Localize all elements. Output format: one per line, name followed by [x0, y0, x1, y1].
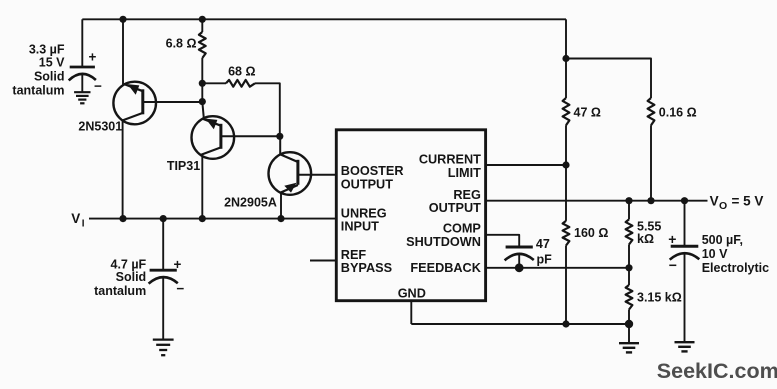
ground: 4.7uF ground: [153, 340, 174, 356]
wire: top branch to 0.16-ohm: [566, 59, 651, 99]
wire: rail to 3.3uF capacitor: [81, 19, 83, 67]
wire: Q1 collector down to input rail: [122, 120, 124, 218]
pin label: REF: [341, 248, 367, 262]
node: 6.8-ohm / 68-ohm junction: [199, 80, 206, 87]
resistor R7 3.15k: [626, 285, 633, 310]
label: C4 plus sign: [668, 231, 676, 247]
wire: 3.15k to ground bus: [628, 310, 630, 325]
pin label: OUTPUT (booster): [341, 178, 393, 192]
wire: ground bus to divider ground: [411, 323, 629, 325]
label: 5.55: [637, 220, 661, 234]
pin label: FEEDBACK: [410, 261, 481, 275]
svg-text:−: −: [176, 281, 184, 296]
node: rail corner / 0.16-ohm branch junction: [562, 55, 569, 62]
svg-text:TIP31: TIP31: [167, 159, 200, 173]
transistor Q1 2N5301: [113, 82, 156, 125]
svg-text:68 Ω: 68 Ω: [228, 64, 255, 78]
svg-text:6.8 Ω: 6.8 Ω: [166, 36, 197, 50]
svg-text:15 V: 15 V: [39, 56, 65, 70]
svg-text:kΩ: kΩ: [637, 232, 654, 246]
label: 15 V: [39, 56, 65, 70]
pin label: UNREG: [341, 207, 387, 221]
label: VO = 5 V: [710, 193, 764, 212]
resistor R3 47 ohm: [563, 98, 570, 125]
label: SeekIC.com watermark: [657, 359, 777, 383]
ground: 3.3uF ground: [74, 92, 90, 103]
node: input rail / 4.7uF junction: [160, 215, 167, 222]
svg-text:COMP: COMP: [443, 222, 482, 236]
capacitor C1 3.3uF plates: [69, 67, 96, 80]
svg-text:Electrolytic: Electrolytic: [702, 261, 769, 275]
label: tantalum (4.7uF): [94, 284, 146, 298]
wire: 6.8-ohm to 68-ohm node: [201, 58, 203, 83]
node: output rail / 0.16-ohm junction: [647, 197, 654, 204]
label: C2 minus sign: [176, 281, 184, 296]
svg-text:500 µF,: 500 µF,: [702, 233, 743, 247]
label: tantalum: [12, 84, 64, 98]
pin label: SHUTDOWN: [406, 235, 481, 249]
resistor R4 0.16 ohm: [648, 98, 655, 125]
node: Q2 base / Q3 collector junction: [276, 133, 283, 140]
node: top rail / 2N5301 junction: [119, 16, 126, 23]
wire: Q3 base to BOOSTER OUTPUT pin: [298, 174, 336, 176]
capacitor C4 500uF plates: [670, 246, 700, 259]
wire: 500uF to ground: [684, 253, 686, 342]
svg-text:OUTPUT: OUTPUT: [341, 178, 393, 192]
svg-text:160 Ω: 160 Ω: [574, 226, 608, 240]
svg-text:tantalum: tantalum: [12, 84, 64, 98]
wire: current limit node down to 160-ohm: [565, 165, 567, 221]
pin label: OUTPUT (reg): [429, 201, 481, 215]
svg-text:10 V: 10 V: [702, 247, 728, 261]
svg-text:SeekIC.com: SeekIC.com: [657, 359, 777, 383]
label: C2 plus sign: [174, 257, 182, 272]
svg-text:V: V: [710, 193, 719, 208]
wire: 68-ohm node down to Q1 base node: [201, 83, 203, 101]
ground: 500uF ground: [675, 342, 695, 351]
svg-text:GND: GND: [398, 286, 426, 300]
wire: node to Q2 emitter entry: [202, 102, 204, 119]
svg-text:I: I: [82, 219, 85, 230]
svg-text:SHUTDOWN: SHUTDOWN: [406, 235, 481, 249]
node: output rail / 5.55k junction: [625, 197, 632, 204]
wire: 68-ohm to elbow and down to Q2 base node: [255, 83, 280, 136]
label: 6.8 ohm: [166, 36, 197, 50]
node: top rail / 6.8-ohm junction: [199, 16, 206, 23]
wire: 0.16-ohm lower lead to output rail: [650, 125, 652, 201]
label: 3.3 uF: [29, 43, 65, 57]
svg-text:pF: pF: [537, 252, 553, 266]
transistor Q3 2N2905A: [269, 152, 312, 195]
wire: Q2 collector down to input rail: [201, 156, 203, 218]
label: 2N5301: [78, 120, 122, 134]
label: 0.16 ohm: [659, 105, 697, 119]
wire: 160-ohm lower lead to ground bus: [565, 246, 567, 325]
resistor R2 68 ohm: [226, 80, 255, 87]
wire: VI input rail to UNREG INPUT pin: [89, 218, 336, 220]
label: 10 V: [702, 247, 728, 261]
pin label: INPUT: [341, 220, 379, 234]
node: output rail / 500uF junction: [681, 197, 688, 204]
wire: top supply rail: [82, 18, 566, 20]
pin label: BYPASS: [341, 261, 392, 275]
wire: COMP SHUTDOWN pin to 47pF: [486, 235, 520, 247]
label: 500 uF,: [702, 233, 743, 247]
label: VI input: [71, 211, 85, 230]
label: kOhm (5.55k): [637, 232, 654, 246]
op-amp U1 regulator block outline: [336, 130, 485, 301]
svg-text:2N5301: 2N5301: [78, 120, 122, 134]
svg-text:V: V: [71, 211, 80, 226]
svg-text:FEEDBACK: FEEDBACK: [410, 261, 481, 275]
node: current limit / 47-ohm junction: [562, 161, 569, 168]
label: pF: [537, 252, 553, 266]
label: 47 ohm: [574, 105, 601, 119]
label: C1 minus sign: [94, 79, 102, 94]
svg-text:LIMIT: LIMIT: [448, 166, 481, 180]
resistor R1 6.8 ohm: [199, 32, 206, 58]
wire: node down to Q3 collector: [279, 136, 281, 154]
wire: 5.55k to feedback junction: [628, 245, 630, 268]
svg-text:REG: REG: [453, 188, 481, 202]
label: TIP31: [167, 159, 200, 173]
label: 160 ohm: [574, 226, 608, 240]
resistor R6 5.55k: [626, 219, 633, 244]
svg-text:47: 47: [536, 237, 550, 251]
wire: input rail to 4.7uF capacitor: [162, 219, 164, 271]
wire: Q1 base line to 6.8-ohm column: [143, 101, 203, 103]
resistor R5 160 ohm: [563, 221, 570, 246]
svg-text:REF: REF: [341, 248, 367, 262]
svg-text:tantalum: tantalum: [94, 284, 146, 298]
svg-text:+: +: [88, 50, 96, 65]
svg-text:OUTPUT: OUTPUT: [429, 201, 481, 215]
label: 2N2905A: [224, 196, 277, 210]
label: Solid (4.7uF): [116, 270, 147, 284]
svg-text:INPUT: INPUT: [341, 220, 379, 234]
node: input rail / Q2 junction: [199, 215, 206, 222]
svg-text:+: +: [668, 231, 676, 247]
svg-text:−: −: [94, 79, 102, 94]
wire: node to 68-ohm resistor: [202, 82, 226, 84]
label: Solid: [34, 70, 65, 84]
ground: divider ground: [619, 343, 639, 352]
node: feedback / 47pF junction: [515, 263, 524, 272]
wire: top rail right drop to 47-ohm column: [565, 19, 567, 58]
label: Electrolytic: [702, 261, 769, 275]
pin label: REG: [453, 188, 481, 202]
wire: output rail to 5.55k: [628, 201, 630, 220]
capacitor C2 4.7uF plates: [149, 270, 178, 283]
wire: 47pF to feedback rail: [518, 254, 520, 268]
svg-text:O: O: [719, 200, 727, 212]
wire: rail to 6.8-ohm resistor: [201, 19, 203, 32]
svg-text:+: +: [174, 257, 182, 272]
svg-text:Solid: Solid: [34, 70, 65, 84]
label: 3.15 kOhm: [637, 290, 682, 304]
wire: output rail to 500uF: [684, 201, 686, 247]
svg-text:BYPASS: BYPASS: [341, 261, 392, 275]
wire: Q3 emitter down to input rail: [280, 192, 282, 218]
wire: feedback junction to 3.15k: [628, 268, 630, 285]
wire: 47-ohm lower lead to current limit node: [565, 125, 567, 165]
wire: ground bus stub down: [628, 324, 630, 343]
svg-text:47 Ω: 47 Ω: [574, 105, 601, 119]
label: 4.7 uF: [111, 258, 147, 272]
svg-text:2N2905A: 2N2905A: [224, 196, 277, 210]
node: input rail / Q3 junction: [277, 215, 284, 222]
label: C4 minus sign: [669, 257, 677, 273]
wire: FEEDBACK pin to divider junction: [486, 267, 629, 269]
wire: 47-ohm upper lead: [565, 59, 567, 99]
pin label: CURRENT: [419, 153, 481, 167]
capacitor C3 47pF plates: [505, 247, 534, 260]
pin label: BOOSTER: [341, 164, 404, 178]
pin label: COMP: [443, 222, 482, 236]
label: 47: [536, 237, 550, 251]
svg-text:3.15 kΩ: 3.15 kΩ: [637, 290, 682, 304]
node: Q1 base / Q2 emitter junction: [199, 98, 206, 105]
svg-text:CURRENT: CURRENT: [419, 153, 481, 167]
svg-text:Solid: Solid: [116, 270, 147, 284]
svg-text:UNREG: UNREG: [341, 207, 387, 221]
node: ground bus / 3.15k junction: [625, 320, 633, 328]
label: C1 plus sign: [88, 50, 96, 65]
node: feedback / divider junction: [625, 264, 632, 271]
node: input rail / Q1 junction: [119, 215, 126, 222]
pin label: GND: [398, 286, 426, 300]
wire: 3.3uF to ground: [81, 74, 83, 93]
transistor Q2 TIP31: [192, 116, 235, 159]
wire: rail to Q1 emitter: [122, 19, 124, 84]
node: ground bus / 160-ohm junction: [562, 320, 569, 327]
label: 68 ohm: [228, 64, 255, 78]
wire: GND pin drop: [410, 301, 412, 324]
wire: 4.7uF to ground: [162, 277, 164, 340]
pin label: LIMIT: [448, 166, 481, 180]
wire: REG OUTPUT pin to VO terminal: [486, 200, 708, 202]
wire: Q2 base line to node: [221, 135, 280, 137]
svg-text:0.16 Ω: 0.16 Ω: [659, 105, 697, 119]
wire: REF BYPASS pin stub: [310, 260, 336, 262]
svg-text:−: −: [669, 257, 677, 273]
wire: CURRENT LIMIT pin to 47-ohm column: [486, 164, 566, 166]
svg-text:BOOSTER: BOOSTER: [341, 164, 404, 178]
svg-text:= 5 V: = 5 V: [732, 193, 764, 208]
svg-text:3.3 µF: 3.3 µF: [29, 43, 65, 57]
